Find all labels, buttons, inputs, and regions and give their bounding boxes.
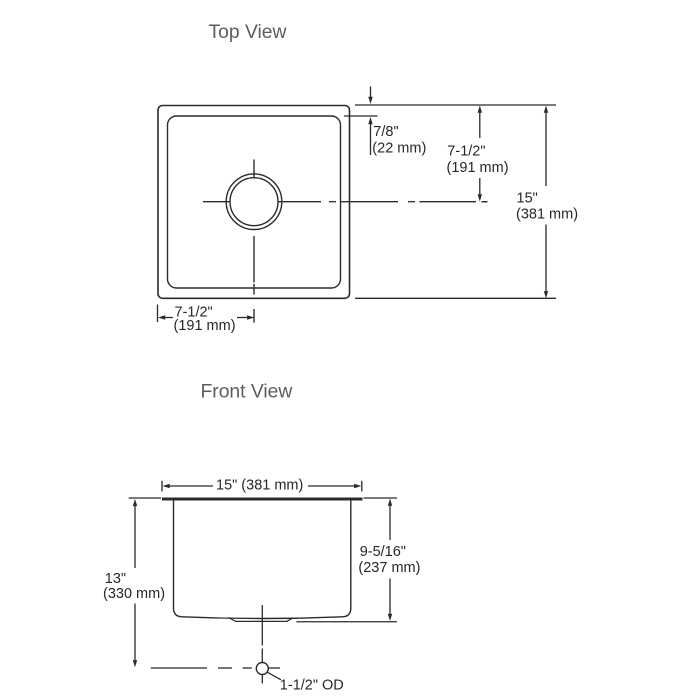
svg-text:Front View: Front View [201,381,293,402]
dimension 7-1/2" (191 mm) horizontal below top view [158,315,254,319]
dimension 15" (381 mm) vertical [544,106,548,299]
drain crosshair top tick [253,160,255,179]
svg-text:1-1/2" OD: 1-1/2" OD [280,678,344,694]
drain outlet circle [256,663,268,675]
dimension 9-5/16" (237 mm) vertical right [388,499,392,622]
extension line below rim left edge [157,305,159,323]
svg-text:Top View: Top View [209,22,287,43]
svg-text:7-1/2": 7-1/2" [447,144,485,160]
sink bowl inner edge (top view rounded square) [168,116,341,288]
dimension 7/8" (22 mm) upper arrow [368,87,372,156]
drain crosshair bottom tick / centerline extension (dash-dot) [253,236,255,282]
drain recess under sink bottom [229,618,293,622]
sink body outline (front view) [174,501,351,619]
drain crosshair left tick [203,201,230,203]
dimension 7-1/2" (191 mm) vertical [478,106,488,202]
svg-text:13": 13" [105,571,126,587]
dimension 7/8" lower arrow [370,124,372,155]
svg-text:(191 mm): (191 mm) [447,160,509,176]
svg-text:(22 mm): (22 mm) [372,141,426,157]
leader line to 1-1/2" OD label [267,672,281,680]
rim extension line left [129,497,161,499]
extension line from outer rim bottom edge [355,297,556,299]
svg-text:15" (381 mm): 15" (381 mm) [216,477,303,493]
drain outer circle [226,174,282,230]
drain inner circle [230,178,278,226]
drain centerline vertical (front view, dash-dot) [261,605,263,646]
svg-text:(381 mm): (381 mm) [516,206,578,222]
rim extension line right [364,497,398,499]
extension line from bowl inner top edge [344,115,378,117]
sink outer rim (top view square) [158,106,350,299]
svg-text:(237 mm): (237 mm) [358,560,420,576]
front view rim bar [162,498,363,501]
dimension 13" (330 mm) vertical left [133,499,137,667]
bottom dash-dot centerline [151,667,280,669]
svg-text:9-5/16": 9-5/16" [360,544,406,560]
svg-text:(191 mm): (191 mm) [174,318,236,334]
extension line from sink bottom to the right [296,621,397,623]
horizontal centerline (dash-dot to the right) [279,201,488,203]
svg-text:7/8": 7/8" [373,124,398,140]
dimension 15" (381 mm) horizontal above front view [162,481,362,492]
svg-text:15": 15" [517,190,538,206]
svg-text:(330 mm): (330 mm) [103,586,165,602]
extension line from outer rim top edge [355,104,556,106]
